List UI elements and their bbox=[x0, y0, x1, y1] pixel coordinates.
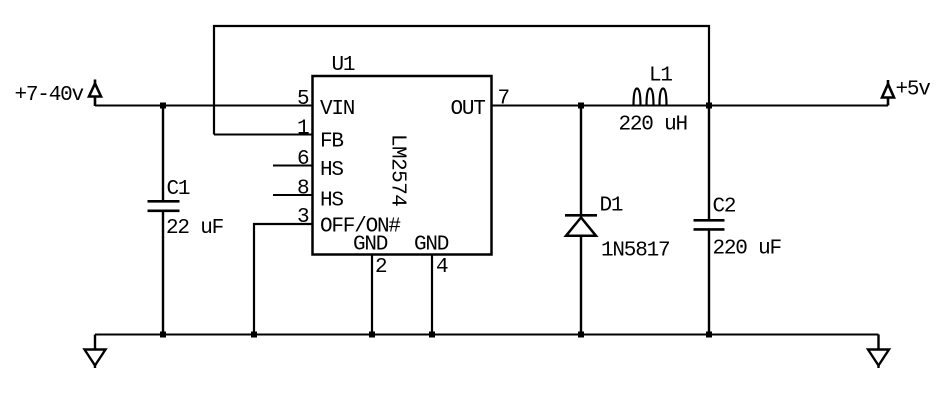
svg-text:220 uH: 220 uH bbox=[619, 114, 687, 137]
svg-text:+5v: +5v bbox=[896, 79, 931, 102]
inductor L1 bbox=[634, 89, 667, 106]
svg-text:8: 8 bbox=[297, 178, 309, 201]
svg-text:1N5817: 1N5817 bbox=[601, 240, 669, 263]
svg-text:7: 7 bbox=[498, 88, 509, 111]
svg-text:+7-40v: +7-40v bbox=[15, 84, 84, 107]
power symbol +5v output arrow bbox=[882, 80, 894, 106]
pin 8 stub bbox=[273, 194, 313, 196]
svg-text:6: 6 bbox=[297, 148, 309, 171]
junction GND4/ground bbox=[429, 332, 435, 338]
capacitor C1 bbox=[148, 106, 180, 335]
junction C2/ground bbox=[706, 332, 712, 338]
junction OFF-ON/ground bbox=[251, 332, 257, 338]
diode D1 1N5817 bbox=[565, 106, 597, 335]
svg-text:C2: C2 bbox=[713, 196, 736, 219]
pin 6 stub bbox=[273, 165, 313, 167]
ground symbol left bbox=[85, 335, 106, 369]
wire OFF/ON pin 3 to ground bbox=[254, 224, 313, 335]
wire GND pin 4 bbox=[431, 255, 433, 335]
wire feedback loop top bbox=[214, 26, 709, 135]
svg-text:OUT: OUT bbox=[451, 98, 486, 121]
svg-text:L1: L1 bbox=[649, 65, 672, 88]
svg-text:D1: D1 bbox=[600, 195, 623, 218]
svg-text:GND: GND bbox=[353, 234, 388, 257]
wire ground rail bbox=[95, 334, 879, 336]
svg-text:22 uF: 22 uF bbox=[166, 217, 224, 240]
svg-text:FB: FB bbox=[320, 131, 343, 154]
junction C2/feedback/output bbox=[706, 103, 712, 109]
junction D1/output bbox=[578, 103, 584, 109]
capacitor C2 bbox=[694, 106, 725, 335]
wire output rail bbox=[492, 105, 889, 107]
svg-text:U1: U1 bbox=[332, 54, 355, 77]
wire GND pin 2 bbox=[371, 255, 373, 335]
svg-text:4: 4 bbox=[436, 256, 448, 279]
junction GND2/ground bbox=[369, 332, 375, 338]
svg-text:3: 3 bbox=[297, 206, 309, 229]
junction C1/VIN bbox=[160, 103, 166, 109]
power symbol +7-40v input arrow bbox=[89, 80, 101, 107]
svg-text:HS: HS bbox=[320, 190, 343, 213]
wire input VIN rail bbox=[95, 105, 313, 107]
ground symbol right bbox=[868, 335, 889, 369]
wire FB pin bbox=[214, 134, 313, 136]
svg-text:220 uF: 220 uF bbox=[713, 238, 782, 261]
junction D1/ground bbox=[578, 332, 584, 338]
svg-text:GND: GND bbox=[414, 234, 449, 257]
svg-text:1: 1 bbox=[297, 118, 309, 141]
svg-text:C1: C1 bbox=[167, 178, 190, 201]
junction C1/ground bbox=[160, 332, 166, 338]
svg-text:2: 2 bbox=[375, 256, 387, 279]
svg-text:HS: HS bbox=[320, 159, 343, 182]
svg-text:LM2574: LM2574 bbox=[386, 134, 409, 206]
IC U1 LM2574 box bbox=[313, 76, 492, 255]
svg-text:5: 5 bbox=[297, 88, 309, 111]
svg-text:VIN: VIN bbox=[320, 98, 354, 121]
